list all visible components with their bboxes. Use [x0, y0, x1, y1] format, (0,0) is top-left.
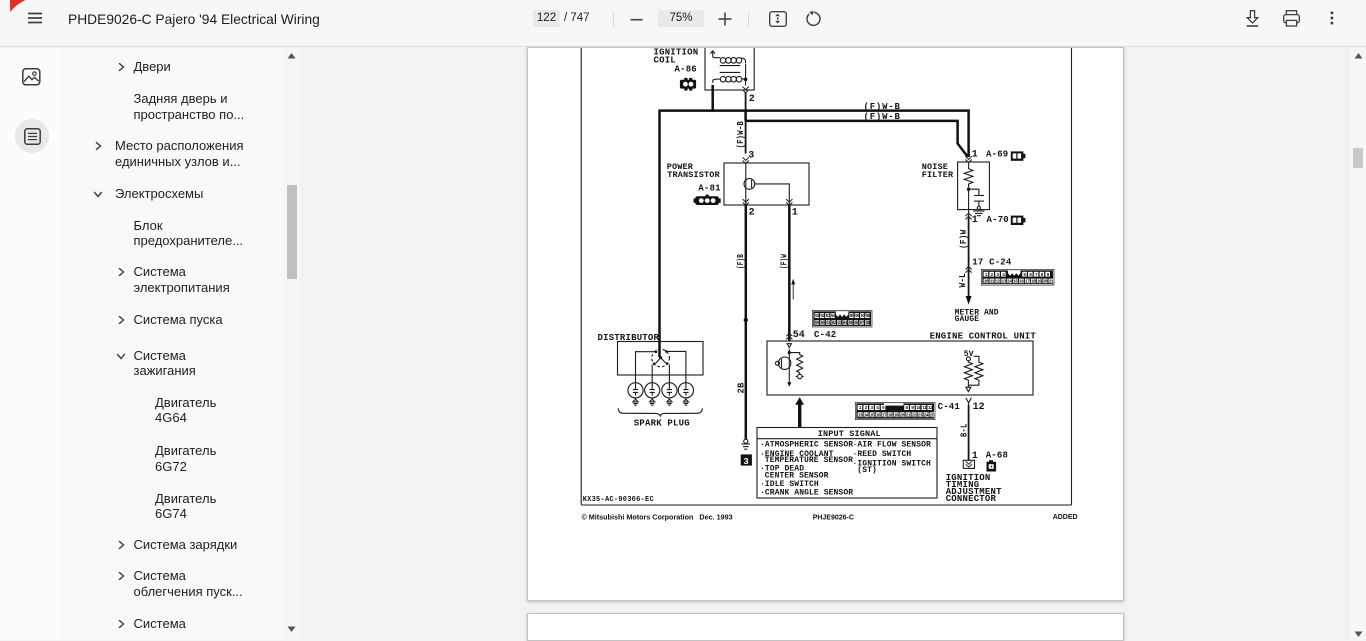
input signal arrow to ECU: [795, 397, 804, 427]
svg-text:A-86: A-86: [675, 65, 697, 75]
wire noise filter to pin 1 bottom: [968, 189, 970, 218]
transistor Q1 symbol: [744, 179, 755, 190]
svg-text:TRANSISTOR: TRANSISTOR: [667, 170, 720, 180]
svg-text:SPARK PLUG: SPARK PLUG: [634, 418, 690, 428]
svg-text:A-81: A-81: [698, 183, 721, 193]
connector A-81 icon: [694, 195, 721, 205]
spark plug 4: [678, 383, 693, 406]
spark plug 2: [645, 383, 660, 406]
junction dot in noise filter: [967, 188, 970, 191]
ECU input arrow symbol at pin 54: [787, 344, 791, 348]
svg-text:3: 3: [743, 457, 749, 467]
svg-text:© Mitsubishi Motors Corporatio: © Mitsubishi Motors Corporation Dec. 199…: [582, 512, 733, 521]
spark plug 1: [628, 383, 643, 406]
transistor Q2 (ECU driver): [776, 357, 791, 369]
wire pin3 through transistor: [745, 163, 747, 205]
svg-text:(F)W-B: (F)W-B: [864, 102, 901, 112]
svg-text:GAUGE: GAUGE: [955, 315, 980, 324]
connector chevrons at pin 2 bottom of box: [743, 199, 749, 205]
wire (F)B from pin 2 down to ground: [745, 205, 748, 439]
wire ECU pin 54 internal: [788, 349, 790, 382]
svg-text:(F)W: (F)W: [959, 229, 969, 249]
svg-text:1: 1: [972, 150, 978, 161]
connector symbol at A-68 wire end: [963, 460, 974, 468]
svg-text:KX35-AC-90306-EC: KX35-AC-90306-EC: [583, 496, 654, 504]
diagram frame bottom border: [581, 504, 1071, 506]
wire (F)W-B upper to noise filter: [660, 111, 969, 157]
svg-text:CONNECTOR: CONNECTOR: [946, 494, 997, 504]
ignition coil primary winding: [710, 51, 745, 64]
svg-text:PHJE9026-C: PHJE9026-C: [813, 514, 854, 521]
svg-text:INPUT SIGNAL: INPUT SIGNAL: [818, 429, 881, 439]
connector C-24 pin block: [981, 269, 1054, 285]
ignition coil box: [705, 41, 754, 90]
svg-text:A-70: A-70: [987, 215, 1009, 225]
resistor R1 (ECU 5V left): [964, 361, 972, 385]
connector C-42 pin block: [812, 310, 872, 327]
resistor R (ECU pull-up on pin 54): [789, 353, 803, 379]
noise filter resistor R: [964, 162, 973, 187]
svg-text:(F)W-B: (F)W-B: [736, 121, 746, 149]
5V supply node circle: [966, 357, 970, 361]
spark plug brace: [618, 408, 702, 416]
svg-text:A-69: A-69: [986, 150, 1008, 160]
svg-text:(F)W-B: (F)W-B: [864, 112, 901, 122]
connector chevrons at pin 54: [786, 333, 792, 339]
svg-text:CENTER SENSOR: CENTER SENSOR: [765, 472, 829, 481]
svg-text:A-68: A-68: [986, 451, 1008, 461]
connector chevrons at pin 1 bottom of box: [786, 199, 792, 205]
distributor box: [618, 342, 704, 376]
engine control unit box: [767, 341, 1033, 395]
wire coil pin2 inside box: [745, 64, 747, 86]
wire down to power transistor pin 3: [745, 121, 747, 154]
ignition coil core: [720, 66, 741, 73]
wire coil pin2 down: [745, 93, 747, 112]
svg-text:1: 1: [792, 207, 798, 218]
noise filter capacitor C: [969, 189, 984, 206]
junction dot coil secondary to pin 2: [744, 78, 748, 82]
connector chevrons at pin 3: [743, 157, 749, 163]
ground reference box 3: [741, 454, 752, 467]
svg-text:54: 54: [793, 330, 805, 341]
diagram frame right border: [1071, 48, 1073, 505]
svg-text:·REED SWITCH: ·REED SWITCH: [853, 450, 912, 459]
power transistor box: [724, 163, 809, 205]
noise filter ground: [973, 206, 984, 215]
svg-text:·CRANK ANGLE SENSOR: ·CRANK ANGLE SENSOR: [760, 489, 853, 498]
junction dot on (F)B wire: [744, 318, 748, 322]
svg-text:·AIR FLOW SENSOR: ·AIR FLOW SENSOR: [853, 441, 932, 450]
open arrow down (ECU output): [966, 385, 971, 391]
wire (F)W down to meter and gauge: [968, 218, 970, 297]
spark plug 3: [662, 383, 677, 406]
svg-text:COIL: COIL: [654, 56, 676, 66]
ignition coil T1 label: [654, 48, 699, 66]
svg-text:3: 3: [748, 151, 754, 162]
distributor rotor center and arms: [656, 356, 666, 363]
input signal list right column: [853, 441, 932, 476]
connector chevrons at C-24 pin 17: [966, 266, 972, 272]
wire B-L from ECU pin 12 to A-68: [968, 405, 970, 460]
svg-text:(F)B: (F)B: [736, 254, 746, 269]
wire coil left lead down and to distributor: [711, 85, 714, 112]
svg-text:W-L: W-L: [958, 273, 968, 288]
connector A-70 icon: [1011, 216, 1026, 225]
distributor rotor dashed circle: [652, 349, 670, 367]
ignition coil secondary winding: [713, 76, 746, 82]
wire (F)W from pin 1 down to ECU pin 54: [788, 205, 791, 341]
Y merge at ECU pin 12: [966, 398, 971, 405]
connector chevrons at noise filter pin 1 bottom: [966, 213, 972, 219]
power transistor label: [667, 162, 721, 180]
direction arrow on (F)W wire: [791, 279, 795, 300]
svg-text:5V: 5V: [964, 350, 974, 359]
noise filter label: [922, 162, 954, 180]
connector C-41 pin block: [855, 402, 935, 420]
svg-text:1: 1: [972, 215, 978, 226]
svg-text:12: 12: [973, 402, 985, 413]
ignition timing adjustment connector label: [946, 473, 1002, 504]
svg-text:(ST): (ST): [857, 466, 877, 475]
connector chevrons at coil pin 2: [743, 87, 749, 93]
connector chevrons at noise filter pin 1 top: [966, 156, 972, 162]
svg-text:·ATMOSPHERIC SENSOR: ·ATMOSPHERIC SENSOR: [760, 441, 853, 450]
connector A-68 icon: [987, 460, 997, 471]
wire (F)W-B lower branch: [746, 110, 968, 157]
svg-text:17 C-24: 17 C-24: [972, 257, 1012, 267]
distributor cap wires to plugs: [636, 351, 686, 382]
svg-text:(F)W: (F)W: [780, 254, 790, 269]
meter and gauge label: [955, 309, 999, 325]
noise filter box: [958, 162, 990, 210]
svg-text:C-41: C-41: [938, 402, 961, 412]
svg-text:2B: 2B: [737, 382, 747, 393]
junction dot ECU internal: [788, 351, 791, 354]
diagram frame left border: [580, 48, 582, 505]
resistor R2 (ECU 5V right): [968, 356, 983, 385]
distributor cap contact dots: [653, 350, 669, 365]
svg-text:B-L: B-L: [959, 424, 969, 438]
connector A-86 icon: [680, 78, 696, 91]
input signal list left column: [760, 441, 853, 498]
wire to distributor: [658, 110, 661, 358]
arrowhead ECU internal down: [787, 382, 791, 386]
wire transistor output to pin 1: [755, 184, 790, 205]
ground symbol G3: [742, 439, 751, 449]
svg-text:FILTER: FILTER: [922, 170, 954, 180]
arrow to meter and gauge: [966, 296, 972, 305]
svg-text:C-42: C-42: [814, 330, 836, 340]
connector A-69 icon: [1011, 151, 1026, 160]
svg-text:ENGINE CONTROL UNIT: ENGINE CONTROL UNIT: [930, 332, 1037, 342]
svg-text:ADDED: ADDED: [1053, 514, 1078, 521]
svg-text:2: 2: [749, 94, 755, 105]
input signal box: [757, 428, 937, 499]
svg-text:2: 2: [749, 207, 755, 218]
